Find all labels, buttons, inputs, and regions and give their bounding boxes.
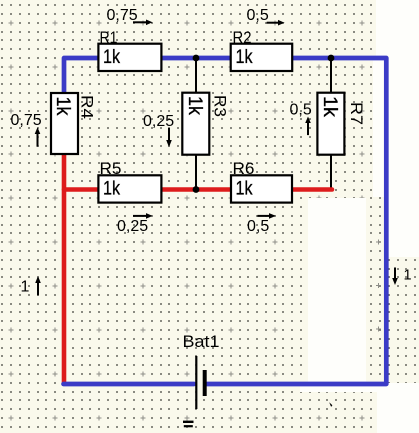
svg-text:1k: 1k — [236, 179, 253, 200]
svg-text:0,75: 0,75 — [11, 112, 42, 129]
svg-text:1: 1 — [21, 279, 30, 296]
svg-text:0,5: 0,5 — [247, 218, 269, 235]
svg-text:1k: 1k — [319, 96, 340, 118]
svg-text:1k: 1k — [103, 47, 120, 68]
svg-text:1: 1 — [404, 268, 412, 284]
svg-text:0,25: 0,25 — [143, 113, 174, 130]
svg-text:R7: R7 — [347, 102, 366, 125]
svg-text:R4: R4 — [78, 95, 97, 119]
svg-text:0,5: 0,5 — [247, 7, 269, 24]
svg-text:R6: R6 — [233, 159, 255, 178]
svg-text:1k: 1k — [184, 96, 205, 115]
svg-text:R2: R2 — [233, 28, 252, 47]
svg-text:0,5: 0,5 — [290, 102, 312, 119]
svg-text:1k: 1k — [103, 179, 120, 200]
svg-text:0,25: 0,25 — [117, 218, 148, 235]
svg-text:R3: R3 — [211, 95, 230, 117]
svg-text:R1: R1 — [100, 28, 118, 47]
svg-text:R5: R5 — [100, 159, 122, 178]
svg-text:1k: 1k — [236, 47, 253, 68]
svg-text:Bat1: Bat1 — [183, 332, 220, 351]
svg-text:1k: 1k — [52, 97, 73, 116]
